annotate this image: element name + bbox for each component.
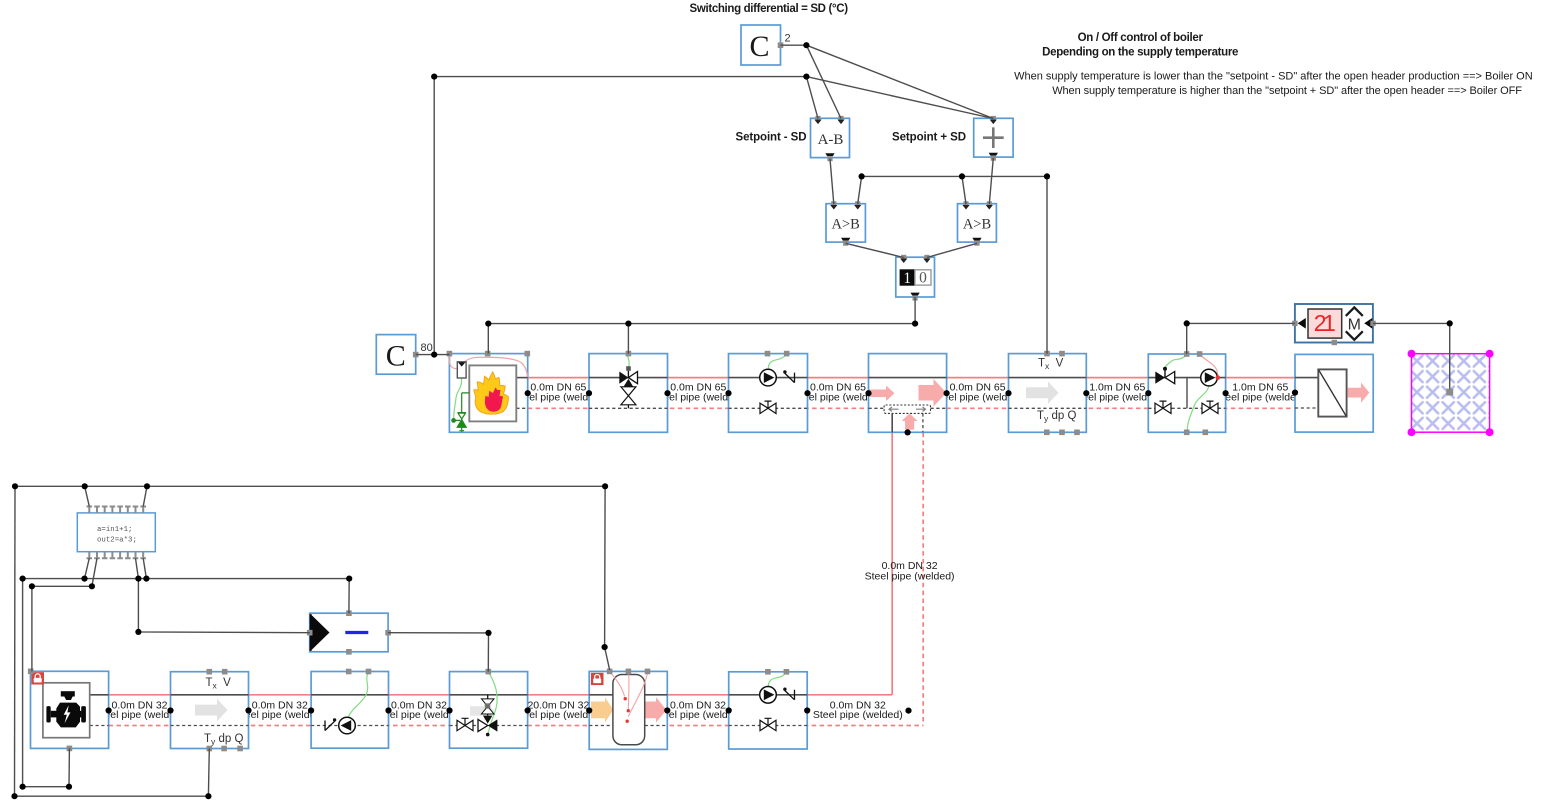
subtract block A-B <box>736 116 850 161</box>
wire: C80 output to boiler <box>416 354 450 356</box>
wire: F2 output to valve V2 <box>388 633 488 672</box>
wire: bus to A>B2 input A <box>962 176 966 204</box>
selector switch block 1/0 <box>896 255 935 301</box>
wire: J2 to plus input <box>806 77 993 119</box>
node: Ty bus junctions <box>12 483 18 489</box>
green shut-off valve <box>454 393 470 432</box>
return pump block PU2 <box>311 669 388 749</box>
add block + <box>892 116 1013 161</box>
wire: row2 supply pipe <box>109 694 893 696</box>
svg-text:1.0m DN 65Steel pipe (welded): 1.0m DN 65Steel pipe (welded) <box>1215 382 1305 404</box>
wire: Tx feedback bus <box>862 176 1047 353</box>
comparator block A>B (right) <box>958 201 997 245</box>
wire: A>B2 output to switch <box>927 243 977 257</box>
wire: row1 return pipe (dashed) <box>528 407 1319 409</box>
wire: bus to A>B1 input B <box>858 176 862 204</box>
node: F2 corners <box>135 629 141 635</box>
pin: room sensor end <box>1446 389 1453 396</box>
wire: control bus A horizontal <box>23 578 350 580</box>
wire: thermostat to VP1 <box>1187 323 1295 354</box>
node: setpoint bus corner <box>431 74 437 80</box>
node: row1 pipe nodes <box>525 390 1298 397</box>
node: Tx bus junctions <box>859 173 865 179</box>
svg-text:21: 21 <box>1314 310 1336 336</box>
3-way mixing valve block V1 <box>589 351 668 432</box>
lock badge <box>591 673 604 685</box>
svg-text:Tx V: Tx V <box>206 677 232 690</box>
wire: J1 to A-B input B <box>806 45 841 118</box>
svg-text:out2=a*3;: out2=a*3; <box>97 537 137 545</box>
svg-text:Tx V: Tx V <box>1038 358 1064 371</box>
svg-text:C: C <box>386 339 406 372</box>
constant C (value 80) <box>376 335 432 375</box>
wire: A-B output to A>B1 <box>830 159 834 204</box>
svg-text:A>B: A>B <box>963 217 991 233</box>
node: row2 pipe nodes <box>106 707 912 713</box>
svg-text:Ty dp Q: Ty dp Q <box>1037 410 1076 423</box>
wire: J2 to A-B input A <box>806 77 818 119</box>
svg-text:0: 0 <box>919 270 927 287</box>
code/program block F1 <box>77 507 155 559</box>
wire: code out7 to F2 input <box>138 579 309 633</box>
svg-text:a=in1+1;: a=in1+1; <box>97 526 132 534</box>
wire: code out1 down <box>85 558 90 578</box>
wire: Ty bus left vertical <box>14 486 17 796</box>
svg-text:Switching differential = SD (°: Switching differential = SD (°C) <box>690 3 849 15</box>
svg-text:1: 1 <box>903 270 911 287</box>
node: thermostat junctions <box>1184 320 1190 326</box>
svg-text:Ty dp Q: Ty dp Q <box>204 733 243 746</box>
header vessel <box>884 405 930 413</box>
consumer valve+pump block VP1 <box>1148 351 1225 435</box>
svg-text:When supply temperature is hig: When supply temperature is higher than t… <box>1052 85 1522 97</box>
boiler block B1 <box>447 351 530 432</box>
pink flow arrows <box>870 386 895 402</box>
svg-text:Setpoint - SD: Setpoint - SD <box>736 132 807 144</box>
heat exchanger block HX1 <box>1295 354 1373 432</box>
wire: riser return pipe (vertical dashed) <box>922 433 924 726</box>
svg-text:0.0m DN 32Steel pipe (welded): 0.0m DN 32Steel pipe (welded) <box>865 560 955 583</box>
svg-text:2: 2 <box>785 33 791 45</box>
wire: code out8 down <box>143 558 146 578</box>
wire: plus output to A>B2 <box>989 158 993 204</box>
constant C (value 2) <box>741 25 791 65</box>
node: C80 junction <box>431 352 437 358</box>
wire: CHP return signal <box>23 748 70 786</box>
wire: control bus B horizontal <box>32 585 92 587</box>
wire: Ty bus horizontal <box>15 485 605 487</box>
wire: thermostat to room sensor <box>1373 323 1450 391</box>
wire: boiler enable bus <box>488 323 915 325</box>
thermostat block TH1 (21 / M) <box>1292 304 1376 345</box>
node: J1 <box>803 42 809 48</box>
wire: control bus A left vertical <box>22 579 24 787</box>
sensor block S1 (Tx V / Ty dp Q) <box>1009 351 1087 435</box>
comparator block A>B (left) <box>826 201 865 245</box>
svg-text:Setpoint + SD: Setpoint + SD <box>892 132 966 144</box>
svg-text:On / Off control of boiler: On / Off control of boiler <box>1078 32 1204 44</box>
wire: code out7 down <box>136 558 139 578</box>
wire: bus to code in1 <box>85 486 90 506</box>
wire: riser supply pipe (vertical) <box>891 433 893 695</box>
wire: setpoint bus vertical <box>433 77 435 355</box>
wire: bus to code in8 <box>143 486 147 506</box>
svg-text:M: M <box>1348 316 1361 333</box>
wire: bus drop to boiler <box>487 324 489 354</box>
node: enable bus junctions <box>912 321 918 327</box>
open header block H1 <box>869 354 947 433</box>
svg-text:A-B: A-B <box>818 132 844 148</box>
wire: bus drop to buffer sensor <box>605 486 610 670</box>
lock badge <box>31 672 44 684</box>
pump block PU1 <box>729 351 808 432</box>
node: bus A junctions <box>20 576 26 582</box>
svg-text:Depending on the supply temper: Depending on the supply temperature <box>1042 46 1238 58</box>
3-way mixing valve block V2 <box>450 669 528 748</box>
subtract/compare block F2 (triangle + minus) <box>307 610 391 654</box>
wire: setpoint bus horizontal <box>434 76 806 78</box>
svg-text:A>B: A>B <box>832 217 860 233</box>
CHP engine block G1 <box>28 669 109 752</box>
sensor block S2 (Tx V / Ty dp Q) <box>171 669 249 751</box>
svg-text:When supply temperature is low: When supply temperature is lower than th… <box>1014 71 1533 83</box>
wire: bus A drop to F2 top <box>348 579 350 614</box>
wire: row2 return pipe (dashed) <box>109 725 924 727</box>
wire: A>B1 output to switch <box>846 243 904 257</box>
node: J2 <box>803 74 809 80</box>
wire: switch output down <box>914 297 916 324</box>
buffer tank block T1 <box>589 669 667 750</box>
wire: control bus B drop to CHP <box>31 586 33 671</box>
node: header bottom <box>905 429 911 435</box>
svg-text:80: 80 <box>421 342 433 354</box>
wire: row1 supply pipe <box>528 377 1319 379</box>
svg-text:0.0m DN 32Steel pipe (welded): 0.0m DN 32Steel pipe (welded) <box>813 699 903 721</box>
room element (hatched) R1 <box>1408 350 1494 437</box>
wire: Ty sensor drop <box>15 749 210 797</box>
supply pump block PU3 <box>729 669 808 749</box>
engine icon <box>46 691 85 727</box>
wire: C2 output to J1 <box>781 44 807 46</box>
node: bus B junctions <box>29 583 35 589</box>
wire: J1 to plus input <box>806 45 993 118</box>
flame icon <box>474 372 509 414</box>
node: bottom corners <box>66 784 72 790</box>
wire: bus drop to valve V1 <box>627 324 629 354</box>
svg-text:C: C <box>749 30 769 63</box>
wire: code out2 down <box>92 558 97 586</box>
